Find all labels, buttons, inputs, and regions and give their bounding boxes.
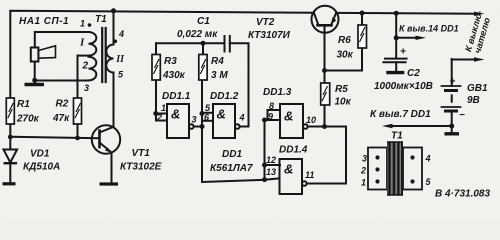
svg-text:II: II	[115, 54, 125, 65]
svg-text:430к: 430к	[162, 70, 186, 81]
svg-text:1: 1	[361, 178, 366, 188]
svg-text:C2: C2	[407, 68, 420, 79]
svg-text:DD1.3: DD1.3	[263, 87, 292, 98]
svg-text:3: 3	[84, 83, 89, 93]
svg-text:&: &	[171, 107, 180, 122]
svg-text:10: 10	[306, 115, 316, 125]
svg-text:Т1: Т1	[391, 131, 403, 142]
svg-text:DD1: DD1	[222, 149, 242, 160]
svg-text:3: 3	[362, 154, 367, 164]
svg-text:DD1.1: DD1.1	[162, 91, 191, 102]
svg-text:1: 1	[161, 103, 166, 113]
svg-text:&: &	[284, 162, 293, 177]
svg-text:270к: 270к	[16, 114, 40, 125]
svg-text:НА1 СП-1: НА1 СП-1	[19, 16, 69, 27]
svg-text:11: 11	[305, 170, 314, 180]
svg-text:VT2: VT2	[256, 17, 275, 28]
svg-text:GB1: GB1	[467, 83, 488, 94]
svg-text:КТ3102Е: КТ3102Е	[120, 162, 162, 173]
svg-text:13: 13	[266, 167, 276, 177]
svg-text:R2: R2	[56, 99, 69, 110]
svg-text:К выв.14 DD1: К выв.14 DD1	[399, 24, 459, 34]
svg-text:R5: R5	[335, 84, 348, 95]
svg-text:КТ3107И: КТ3107И	[248, 30, 291, 41]
svg-text:C1: C1	[197, 16, 210, 27]
svg-text:R6: R6	[338, 35, 351, 46]
svg-text:4: 4	[239, 113, 245, 123]
svg-text:I: I	[79, 37, 85, 49]
svg-text:VD1: VD1	[30, 149, 50, 160]
svg-text:R3: R3	[164, 56, 177, 67]
svg-text:1000мк×10В: 1000мк×10В	[374, 81, 433, 92]
svg-text:2: 2	[360, 166, 366, 176]
svg-text:9В: 9В	[467, 95, 480, 106]
svg-text:3 М: 3 М	[211, 70, 228, 81]
svg-text:−: −	[459, 110, 465, 121]
svg-text:8: 8	[269, 101, 274, 111]
svg-text:КД510А: КД510А	[23, 162, 60, 173]
svg-text:К561ЛА7: К561ЛА7	[210, 163, 253, 174]
svg-text:10к: 10к	[335, 97, 352, 108]
svg-text:DD1.4: DD1.4	[279, 145, 308, 156]
svg-text:3: 3	[192, 115, 197, 125]
svg-text:&: &	[217, 107, 226, 122]
svg-text:В 4·731.083: В 4·731.083	[435, 189, 490, 200]
svg-text:9: 9	[268, 112, 273, 122]
svg-text:+: +	[450, 77, 456, 88]
svg-text:2: 2	[82, 61, 89, 72]
svg-text:30к: 30к	[337, 50, 354, 61]
svg-text:R4: R4	[211, 56, 224, 67]
svg-text:4: 4	[425, 154, 431, 164]
svg-text:+: +	[400, 47, 406, 58]
svg-text:2: 2	[156, 113, 162, 123]
svg-text:К выв.7 DD1: К выв.7 DD1	[370, 109, 431, 120]
svg-text:1: 1	[80, 19, 85, 29]
svg-text:47к: 47к	[52, 113, 70, 124]
svg-text:R1: R1	[17, 99, 30, 110]
svg-text:12: 12	[266, 155, 276, 165]
svg-text:DD1.2: DD1.2	[210, 91, 239, 102]
svg-text:0,022 мк: 0,022 мк	[177, 29, 218, 40]
svg-text:4: 4	[118, 29, 124, 39]
svg-text:Т1: Т1	[95, 14, 107, 25]
svg-text:VT1: VT1	[132, 148, 151, 159]
svg-text:&: &	[284, 109, 293, 124]
